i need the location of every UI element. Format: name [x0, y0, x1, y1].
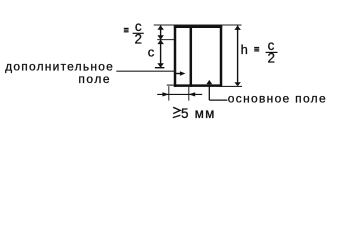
svg-text:5 мм: 5 мм	[181, 106, 216, 121]
left fraction bar	[133, 32, 144, 34]
field outline top edge	[174, 25, 222, 28]
extension line left for >=5mm	[168, 86, 170, 100]
svg-text:c: c	[148, 44, 155, 59]
leader arrow for "основное поле"	[206, 80, 212, 84]
dimension line c/2 (upper left)	[160, 26, 162, 40]
field inner divider	[190, 26, 193, 87]
field outline right edge	[220, 26, 223, 87]
middle extension line left	[157, 39, 174, 41]
leader line from label "дополнительное поле"	[116, 70, 175, 72]
extension line right for >=5mm	[188, 87, 190, 101]
identity sign of right label	[254, 47, 259, 49]
svg-text:2: 2	[134, 32, 142, 47]
top extension line	[154, 24, 242, 26]
svg-text:основное поле: основное поле	[228, 92, 327, 106]
bottom extension line left	[167, 84, 174, 86]
label ">=" glyph of >=5 mm	[173, 107, 180, 113]
identity sign of left fraction	[124, 27, 129, 29]
svg-text:поле: поле	[78, 72, 111, 86]
dimension line >=5mm	[157, 93, 202, 95]
pointer arrow into additional field column	[176, 73, 181, 75]
svg-text:h: h	[241, 42, 248, 57]
bottom extension line right	[222, 85, 242, 87]
dimension line c (left)	[160, 40, 162, 68]
svg-text:2: 2	[267, 51, 275, 66]
dimension line h (right)	[237, 26, 239, 85]
extension tick at top of additional field level	[155, 67, 165, 69]
field outline left edge	[174, 26, 177, 87]
right fraction bar	[266, 51, 278, 53]
field outline bottom edge	[174, 84, 222, 87]
